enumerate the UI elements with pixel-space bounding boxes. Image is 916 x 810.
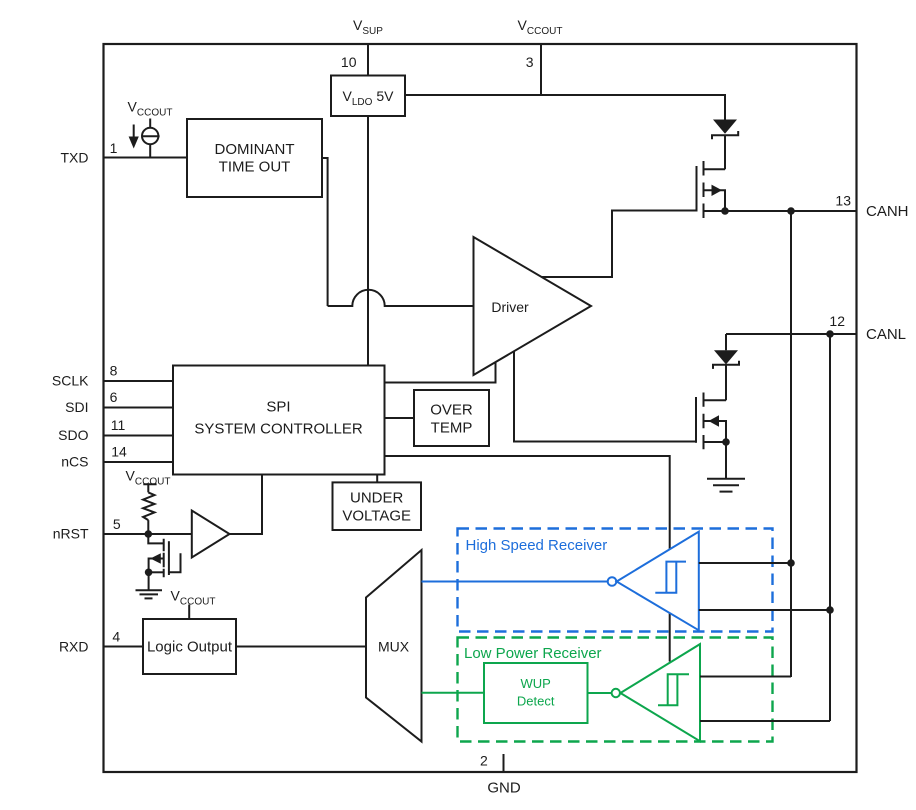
zener diode D2 [713,334,739,400]
svg-text:13: 13 [835,193,851,209]
svg-text:TXD: TXD [61,150,89,166]
wire TXD input [104,157,188,159]
block DOMINANT TIME OUT [187,119,322,197]
svg-text:VOLTAGE: VOLTAGE [342,508,411,525]
inverter bubble green [612,689,620,697]
svg-text:12: 12 [829,313,845,329]
junction dot CANL to receiver [826,606,834,614]
svg-text:Driver: Driver [491,299,529,315]
svg-text:2: 2 [480,753,488,769]
block WUP Detect [484,663,588,723]
svg-text:TEMP: TEMP [431,420,473,437]
comparator high speed receiver [617,532,699,631]
wire RXD input [104,646,144,648]
svg-text:Low Power Receiver: Low Power Receiver [464,645,602,662]
wire low power receiver input from CANL [700,720,830,722]
wire WUP detect to comparator [588,692,612,694]
ground at Q3 source [136,572,163,598]
svg-text:10: 10 [341,54,357,70]
wire CANL output [726,333,857,335]
junction dot CANH sense tap [787,207,795,215]
block OVER TEMP [414,390,489,446]
transistor Q2 CANL low-side MOSFET [696,393,726,450]
wire MUX to WUP detect [422,692,485,694]
wire VLDO output down to SPI controller [367,116,369,366]
chip outline border [104,44,857,772]
buffer nRST [192,511,230,558]
wire MUX to high speed receiver [422,581,608,583]
low power receiver dashed enclosure [458,638,773,742]
svg-text:5: 5 [113,516,121,532]
block Logic Output [143,619,236,674]
wire resistor to nRST node [147,520,149,534]
svg-text:11: 11 [111,417,126,433]
wire pullup top stub with rail bar [143,484,156,492]
hysteresis symbol green [658,674,689,705]
junction dot Q1 source [721,207,729,215]
svg-text:Detect: Detect [517,694,555,709]
wire pin 10 VSUP stub [367,44,369,76]
wire CANH output [725,210,857,212]
svg-text:SCLK: SCLK [52,373,89,389]
wire driver input with hop over VLDO line [328,290,474,306]
wire high speed receiver input from CANH [699,562,791,564]
wire driver lower output to CANL gate [514,352,696,442]
svg-text:4: 4 [112,629,120,645]
wire timeout feedback to driver input [322,158,328,306]
current direction arrow [129,125,139,149]
transistor Q1 CANH high-side MOSFET [697,161,726,218]
ground at Q2 source [707,442,745,492]
wire logic output to MUX [236,646,366,648]
wire low power receiver input from CANH [700,676,791,678]
wire SPI to under voltage [376,475,378,483]
svg-text:TIME OUT: TIME OUT [219,159,291,176]
wire SPI to over temp [385,417,414,419]
resistor R1 nRST pullup [143,492,154,520]
svg-text:SDI: SDI [65,399,88,415]
regulator U1 VLDO 5V box [331,76,405,117]
svg-text:1: 1 [110,140,118,156]
wire SDI input [104,407,174,409]
svg-text:3: 3 [526,54,534,70]
svg-text:OVER: OVER [430,402,473,419]
transistor Q3 nRST pulldown MOSFET [148,534,180,577]
junction dot Q2 source [722,438,730,446]
junction dot CANH to receiver [787,559,795,567]
wire SPI to low power receiver enable [385,456,670,662]
multiplexer MUX [366,550,422,742]
svg-text:High Speed Receiver: High Speed Receiver [466,537,608,554]
svg-text:CANL: CANL [866,326,906,343]
wire CANL sense line [829,334,831,721]
high speed receiver dashed enclosure [458,529,773,632]
current source I1 [142,119,160,158]
svg-text:VCCOUT: VCCOUT [518,17,563,37]
wire SPI to driver lower input [385,362,496,383]
svg-text:SDO: SDO [58,427,88,443]
wire VCCOUT rail to CANH transistor [405,95,725,120]
block UNDER VOLTAGE [333,482,422,530]
wire SDO input [104,435,174,437]
svg-text:GND: GND [487,780,521,797]
svg-text:nCS: nCS [61,454,88,470]
svg-text:WUP: WUP [521,676,551,691]
junction dot CANL sense tap [826,330,834,338]
wire VCCOUT stub to logic output [188,605,190,620]
junction dot nRST node [145,530,153,538]
inverter bubble blue [608,577,617,586]
svg-text:8: 8 [110,363,118,379]
wire SCLK input [104,380,174,382]
wire pin 2 GND stub [503,754,505,772]
wire pin 3 VCCOUT stub [540,44,542,95]
svg-text:VSUP: VSUP [353,17,383,37]
svg-text:Logic Output: Logic Output [147,639,233,656]
wire nCS input [104,461,174,463]
svg-text:RXD: RXD [59,639,89,655]
hysteresis symbol blue [655,562,686,593]
block SPI SYSTEM CONTROLLER [173,366,385,475]
wire driver upper output to CANH gate [542,211,697,278]
wire nRST input [104,533,192,535]
svg-text:CANH: CANH [866,203,909,220]
wire buffer output to SPI [230,475,263,535]
zener diode D1 [712,120,738,170]
junction dot Q3 source [145,569,153,577]
amplifier Driver [474,237,592,375]
wire CANH sense line [790,211,792,677]
svg-text:nRST: nRST [53,526,89,542]
comparator low power receiver [620,644,700,741]
wire high speed receiver input from CANL [699,609,830,611]
svg-text:MUX: MUX [378,639,410,655]
svg-text:SPI: SPI [266,399,290,416]
svg-text:UNDER: UNDER [350,490,404,507]
svg-text:SYSTEM CONTROLLER: SYSTEM CONTROLLER [194,421,363,438]
svg-text:DOMINANT: DOMINANT [215,141,295,158]
svg-text:14: 14 [111,444,127,460]
svg-text:6: 6 [110,389,118,405]
